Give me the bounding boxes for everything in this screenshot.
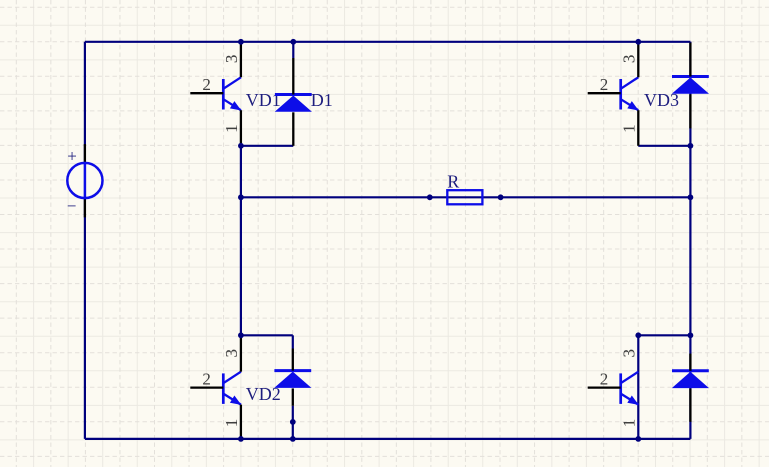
wire bottom bus [85, 438, 691, 440]
Q2 pin 2 (base) wire [588, 92, 621, 94]
Q1 pin 1 (emitter) wire [240, 110, 242, 146]
wire VD1 emitter to D1 [241, 145, 293, 147]
svg-text:2: 2 [600, 369, 609, 388]
transistor Q3 (VD2) [223, 372, 241, 405]
junction right bus / Q4 top wire [688, 332, 694, 338]
junction mid vertical / middle net [238, 194, 244, 200]
resistor R [447, 190, 482, 204]
junction right bus / middle net [688, 194, 694, 200]
svg-text:1: 1 [222, 124, 241, 133]
Q2 pin 1 (emitter) wire [637, 110, 639, 146]
wire top bus [85, 41, 691, 43]
wire VD2 collector to D2 [241, 334, 293, 336]
svg-text:3: 3 [222, 349, 241, 358]
D1 anode pin [292, 112, 294, 146]
D3 cathode pin [689, 43, 691, 77]
junction bottom bus / Q4 emitter [635, 436, 641, 442]
svg-text:2: 2 [202, 75, 211, 94]
junction Q3 collector node [238, 332, 244, 338]
junction top bus / D1 [290, 39, 296, 45]
transistor Q1 (VD1) [223, 77, 241, 110]
D3 anode pin [689, 94, 691, 128]
Q2 pin 3 (collector) wire [637, 43, 639, 78]
svg-text:3: 3 [619, 349, 638, 358]
svg-text:−: − [67, 197, 77, 216]
diode D3 [672, 77, 709, 94]
D4 anode pin [689, 389, 691, 422]
wire mid-left vertical [240, 146, 242, 335]
svg-text:1: 1 [222, 419, 241, 428]
wire right bus [689, 42, 691, 439]
Q1 pin 2 (base) wire [190, 92, 223, 94]
svg-text:R: R [447, 171, 459, 191]
junction bottom bus / D2 [290, 436, 296, 442]
svg-text:2: 2 [600, 75, 609, 94]
Q1 pin 3 (collector) wire [240, 43, 242, 78]
Q3 pin 2 (base) wire [190, 386, 223, 388]
wire Q4 collector to D4 [638, 334, 690, 336]
junction Q1 emitter node [238, 143, 244, 149]
junction D2 anode wire [290, 419, 296, 425]
Q3 pin 3 (collector) wire [240, 336, 242, 372]
svg-text:2: 2 [202, 369, 211, 388]
D2 anode pin [292, 388, 294, 405]
wire left bus [84, 42, 86, 439]
svg-text:3: 3 [222, 55, 241, 64]
junction middle net left of R [427, 194, 433, 200]
junction top bus / Q1 collector [238, 39, 244, 45]
transistor Q4 [621, 372, 639, 405]
wire middle net through R [241, 196, 691, 198]
D1 cathode pin [292, 58, 294, 95]
junction bottom bus / Q3 emitter [238, 436, 244, 442]
wire D2 top stub [292, 335, 294, 348]
wire Q4 vertical overlay [637, 335, 639, 439]
junction middle net right of R [498, 194, 504, 200]
svg-text:1: 1 [619, 419, 638, 428]
wire D1 top stub [292, 42, 294, 58]
diode D4 [672, 371, 709, 388]
diode D1 [275, 95, 312, 112]
wire D2 bottom [292, 406, 294, 439]
svg-text:+: + [67, 146, 77, 165]
Q3 pin 1 (emitter) wire [240, 405, 242, 439]
svg-text:3: 3 [619, 55, 638, 64]
junction top bus / Q2 collector [635, 39, 641, 45]
D4 cathode pin [689, 354, 691, 371]
Q4 pin 2 (base) wire [588, 386, 621, 388]
junction Q4 collector node [635, 332, 641, 338]
junction right bus / VD3 emitter wire [688, 143, 694, 149]
D2 cathode pin [292, 349, 294, 371]
svg-text:D1: D1 [311, 90, 333, 110]
transistor Q2 (VD3) [621, 77, 639, 110]
svg-text:VD1: VD1 [246, 90, 281, 110]
svg-text:1: 1 [619, 124, 638, 133]
diode D2 [274, 371, 311, 388]
wire VD3 emitter to right bus [638, 145, 690, 147]
voltage source V1 [67, 144, 102, 217]
